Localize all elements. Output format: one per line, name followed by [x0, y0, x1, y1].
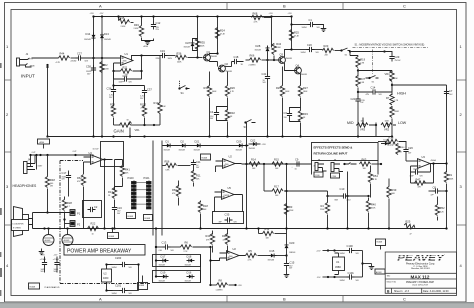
K0608 box e	[201, 154, 211, 160]
diode D19	[159, 271, 169, 283]
node mid gnd	[357, 135, 359, 137]
svg-text:S1: S1	[181, 91, 185, 95]
node r3 rail	[285, 227, 287, 229]
gnd rail j3	[112, 135, 114, 137]
svg-text:R4: R4	[321, 204, 325, 208]
resistor R39	[387, 179, 397, 230]
resistor R47 feedback	[411, 162, 435, 188]
resistor R7	[386, 85, 399, 109]
zone tick right c	[457, 79, 467, 81]
svg-text:R19: R19	[360, 58, 365, 62]
svg-text:1N4148: 1N4148	[236, 149, 242, 151]
svg-text:100K: 100K	[449, 178, 454, 180]
svg-text:R113: R113	[140, 102, 147, 106]
svg-text:S1 : MODERN/VINTAGE VOICING SW: S1 : MODERN/VINTAGE VOICING SWITCH (SHOW…	[355, 43, 425, 46]
svg-text:R63: R63	[362, 158, 367, 162]
svg-text:R28: R28	[67, 201, 72, 205]
gnd rail j5	[143, 135, 145, 137]
node c201	[105, 289, 107, 291]
wire u4 r41 r17	[115, 160, 123, 191]
svg-text:2N5088: 2N5088	[301, 74, 307, 76]
title block bottom row divider a	[391, 288, 393, 293]
node mid	[375, 124, 377, 126]
resistor R38	[110, 94, 116, 126]
svg-text:R24: R24	[220, 29, 225, 33]
resistor R30	[204, 72, 218, 137]
zone tick left	[5, 151, 12, 153]
svg-text:3: 3	[314, 166, 315, 168]
capacitor C40 feedback	[410, 164, 431, 178]
svg-text:VR3: VR3	[360, 127, 366, 131]
svg-text:10: 10	[92, 233, 94, 235]
svg-text:1N4148: 1N4148	[255, 50, 261, 52]
svg-text:D21: D21	[195, 139, 200, 143]
rail dot s1	[43, 227, 45, 229]
svg-text:Date: 3-10-2000, 11:00: Date: 3-10-2000, 11:00	[423, 290, 449, 293]
svg-text:2.49K: 2.49K	[134, 28, 140, 30]
capacitor C27	[71, 51, 89, 62]
capacitor C300	[40, 257, 48, 274]
resistor R36	[176, 51, 187, 63]
A200 box label	[38, 139, 50, 149]
wire u4 out down	[104, 160, 106, 229]
node ef1	[245, 163, 247, 165]
svg-text:K0608: K0608	[145, 218, 150, 220]
svg-text:D13: D13	[104, 32, 109, 36]
wire fb down	[114, 71, 145, 89]
svg-text:470: 470	[111, 108, 114, 110]
svg-text:C18: C18	[234, 55, 239, 59]
node x246b	[245, 227, 247, 229]
svg-text:R11: R11	[196, 174, 201, 178]
node U1 out	[140, 54, 142, 56]
resistor R22	[84, 221, 113, 235]
wire mid node	[375, 123, 377, 137]
svg-text:2W: 2W	[50, 186, 53, 188]
vertical net x197	[197, 17, 199, 58]
resistor R4	[320, 191, 330, 230]
capacitor C14	[358, 85, 392, 96]
svg-text:R49: R49	[134, 23, 139, 27]
svg-text:K0608: K0608	[128, 216, 133, 218]
K0608 box a	[127, 213, 136, 219]
svg-text:R45: R45	[120, 16, 125, 20]
capacitor C101	[335, 271, 363, 282]
resistor R26	[225, 72, 235, 111]
op-amp U3	[418, 155, 437, 168]
resistor R60	[172, 181, 181, 206]
svg-text:R1: R1	[449, 173, 453, 177]
resistor R18 top	[378, 135, 406, 147]
svg-text:C9: C9	[295, 158, 299, 162]
diode D22	[249, 138, 267, 150]
svg-text:220NJ: 220NJ	[71, 60, 77, 62]
+15 tags c300	[41, 255, 59, 257]
svg-text:R27: R27	[303, 86, 308, 90]
jack J2	[331, 158, 343, 172]
svg-text:1N4148: 1N4148	[184, 47, 190, 49]
capacitor C4	[210, 107, 228, 121]
svg-text:7N 50V: 7N 50V	[395, 60, 402, 62]
svg-text:R26: R26	[230, 86, 235, 90]
resistor R29	[276, 67, 290, 137]
capacitor C200	[112, 256, 139, 269]
wire high out	[392, 85, 447, 164]
breakaway dash boundary vertical	[59, 161, 61, 284]
zone tick right b	[457, 224, 467, 226]
wire headphone feed	[31, 154, 94, 156]
capacitor C41	[262, 60, 271, 137]
svg-text:180K: 180K	[303, 91, 308, 93]
svg-text:1N4148: 1N4148	[249, 148, 255, 150]
node hp2	[46, 154, 48, 156]
svg-text:+C300: +C300	[40, 259, 47, 261]
resistor R35	[195, 39, 205, 50]
resistor R40	[366, 198, 376, 230]
svg-text:6N8: 6N8	[335, 199, 338, 201]
vertical net x93	[93, 17, 95, 63]
svg-text:1N4148: 1N4148	[159, 264, 165, 266]
U1 supply pins	[335, 253, 339, 275]
svg-text:C240: C240	[332, 176, 337, 178]
title block divider 2	[385, 278, 456, 280]
speaker label box	[12, 220, 29, 231]
zone tick bottom 1	[226, 296, 228, 303]
svg-text:R18: R18	[203, 204, 208, 208]
wire r19 to vr4	[358, 69, 392, 76]
node q3c	[290, 48, 292, 50]
rail dot s4	[111, 227, 113, 229]
diode D15	[268, 249, 287, 261]
resistor R56	[163, 159, 191, 171]
resistor R11	[191, 171, 201, 187]
node x246	[245, 144, 247, 146]
svg-text:8 OHMS: 8 OHMS	[13, 227, 21, 229]
capacitor C8	[429, 185, 448, 196]
node VR1	[143, 124, 145, 126]
transistor Q2	[218, 62, 232, 73]
svg-text:C39: C39	[123, 74, 128, 78]
svg-text:1N4148: 1N4148	[194, 149, 200, 151]
svg-text:100NJ: 100NJ	[340, 280, 345, 282]
svg-text:R21: R21	[123, 66, 128, 70]
svg-text:C8: C8	[433, 185, 437, 189]
svg-text:U2: U2	[229, 154, 233, 158]
svg-text:R62: R62	[77, 176, 82, 180]
svg-text:1N4148: 1N4148	[185, 264, 191, 266]
svg-text:R14: R14	[251, 158, 256, 162]
vertical J2 column	[346, 172, 348, 230]
node ef3	[285, 163, 287, 165]
svg-text:Q2: Q2	[225, 62, 229, 66]
capacitor C17	[62, 171, 72, 197]
node u4 out	[103, 158, 105, 160]
svg-text:C: C	[403, 296, 406, 301]
capacitor C7	[444, 89, 453, 97]
jack J3	[314, 158, 327, 171]
svg-text:Used: 22R1-7019: Used: 22R1-7019	[412, 285, 429, 287]
svg-text:+: +	[292, 167, 293, 169]
svg-text:C16: C16	[117, 206, 122, 210]
resistor R13	[154, 56, 167, 126]
resistor R15	[272, 158, 283, 170]
svg-text:C201: C201	[115, 284, 122, 288]
POWER AMP BREAKAWAY box	[64, 245, 145, 256]
K0608 box g	[108, 229, 119, 239]
svg-text:1N4148: 1N4148	[289, 252, 295, 254]
svg-text:C10: C10	[340, 187, 345, 191]
svg-text:C11: C11	[196, 160, 201, 164]
node fb right	[140, 70, 142, 72]
breakaway dash boundary bottom	[60, 283, 150, 285]
svg-text:Q3: Q3	[280, 53, 284, 57]
svg-text:D18: D18	[187, 255, 192, 259]
svg-text:240K: 240K	[177, 61, 182, 63]
svg-text:100K: 100K	[285, 91, 290, 93]
input jack J1	[17, 52, 36, 67]
svg-text:100NJ: 100NJ	[112, 267, 117, 269]
svg-text:HEADPHONES: HEADPHONES	[13, 184, 37, 188]
svg-text:R3: R3	[289, 205, 293, 209]
wire u3 out	[411, 164, 447, 173]
wire VR1 to R13	[145, 124, 161, 126]
svg-text:LOW: LOW	[398, 121, 407, 125]
headphone jack J4	[24, 154, 44, 174]
svg-text:A2003: A2003	[376, 271, 381, 274]
switch S1d	[366, 76, 379, 84]
svg-text:4560: 4560	[229, 256, 233, 258]
diode box pair top	[153, 255, 201, 267]
ground small left	[39, 249, 45, 255]
vertical x210	[210, 247, 212, 285]
resistor R1	[444, 162, 454, 229]
svg-text:C41: C41	[262, 72, 267, 76]
svg-text:C38: C38	[86, 65, 91, 69]
node u1d	[333, 276, 335, 278]
transistor Q1	[203, 50, 217, 61]
resistor R19	[356, 57, 366, 68]
svg-text:C29: C29	[395, 55, 400, 59]
wire C27 to U1	[84, 57, 114, 59]
svg-text:1M0B: 1M0B	[30, 66, 36, 68]
resistor R17b	[264, 185, 328, 197]
svg-text:220K: 220K	[371, 208, 376, 210]
svg-text:C3: C3	[284, 111, 288, 115]
svg-text:240K: 240K	[276, 47, 281, 49]
svg-text:C2: C2	[94, 205, 98, 209]
svg-text:R44: R44	[60, 51, 65, 55]
svg-text:D19: D19	[161, 271, 166, 275]
svg-text:R15: R15	[274, 158, 279, 162]
resistor R25	[289, 30, 299, 41]
svg-text:PLACE NEAR U5: PLACE NEAR U5	[45, 286, 60, 289]
svg-text:R7: R7	[386, 96, 390, 100]
svg-text:C240: C240	[315, 175, 320, 177]
node bypass	[361, 262, 363, 264]
capacitor C37	[140, 88, 152, 100]
svg-text:C1: C1	[309, 18, 313, 22]
svg-text:Q4: Q4	[296, 64, 300, 68]
resistor R33	[298, 111, 308, 137]
node u1c	[327, 276, 329, 278]
capacitor C3	[284, 108, 301, 122]
resistor R25 bottom	[402, 219, 421, 235]
svg-text:B: B	[283, 296, 286, 301]
capacitor C26	[397, 146, 418, 161]
rail junction x197	[196, 15, 198, 17]
node x210b	[209, 284, 211, 286]
resistor R6	[181, 240, 211, 253]
svg-text:U4: U4	[89, 151, 93, 155]
svg-text:K0608: K0608	[377, 242, 382, 244]
diode D28	[255, 44, 270, 54]
node R30 gnd	[208, 135, 210, 137]
resistor R14	[249, 158, 260, 170]
diode box pair bottom	[153, 271, 201, 283]
rail junction x271	[270, 15, 272, 17]
wire U4 in	[84, 157, 113, 174]
effects return wire	[242, 163, 312, 165]
switch S1a	[178, 81, 189, 95]
svg-text:100NJ: 100NJ	[340, 253, 345, 255]
wire u2b in	[211, 253, 246, 261]
svg-text:C14: C14	[371, 86, 376, 90]
vertical net x291	[291, 17, 293, 50]
resistor R66 2.2meg	[246, 53, 268, 66]
svg-text:560K: 560K	[212, 91, 217, 93]
capacitor C201	[112, 284, 139, 296]
resistor R18 vertical	[198, 201, 208, 230]
rail junction x291	[290, 15, 292, 17]
ground below R49 C12	[142, 38, 154, 49]
node base Q1	[196, 56, 198, 58]
svg-text:P101: P101	[144, 176, 151, 180]
C240 box a	[314, 172, 323, 177]
resistor R3	[284, 204, 294, 215]
gnd rail j2	[101, 135, 103, 137]
node c14	[357, 91, 359, 93]
svg-text:P2: P2	[77, 222, 81, 226]
svg-text:R48: R48	[50, 178, 55, 182]
svg-text:4060S: 4060S	[45, 240, 51, 242]
node fb2	[112, 84, 114, 86]
svg-text:1N914B: 1N914B	[268, 259, 275, 261]
svg-text:R23: R23	[324, 44, 329, 48]
svg-text:LOUDSPKR: LOUDSPKR	[13, 223, 25, 225]
svg-text:R49: R49	[206, 234, 211, 238]
vertical net x101	[101, 17, 103, 137]
svg-text:220K: 220K	[289, 210, 294, 212]
node c200	[105, 263, 107, 265]
rail junction x217	[216, 15, 218, 17]
diode D23	[381, 140, 397, 146]
op-amp U4	[89, 148, 104, 164]
resistor R27	[298, 74, 308, 111]
svg-text:D16: D16	[187, 271, 192, 275]
IC U1 4580 box	[333, 257, 345, 271]
resistor R54	[368, 166, 378, 198]
svg-text:Meridian, MS 39301: Meridian, MS 39301	[411, 267, 430, 270]
S1 dash link drop	[372, 50, 374, 75]
connector P100 pins	[132, 181, 137, 209]
svg-text:100NJ: 100NJ	[302, 27, 307, 29]
resistor R50	[396, 144, 405, 155]
svg-text:U2: U2	[233, 247, 237, 251]
wire u2 io	[216, 161, 242, 172]
wire C19 to R36	[168, 55, 176, 57]
C240 box b	[331, 173, 340, 178]
svg-text:R40: R40	[371, 203, 376, 207]
capacitor C100	[335, 244, 363, 255]
zone tick left c	[5, 79, 12, 81]
node hp3	[74, 154, 76, 156]
svg-text:4060S: 4060S	[64, 240, 70, 242]
IC U2 timer box	[102, 269, 112, 282]
node r63	[380, 163, 382, 165]
svg-text:R54: R54	[373, 174, 378, 178]
capacitor C19	[156, 49, 173, 60]
wire U1 output	[132, 56, 161, 61]
node c41 gnd	[266, 135, 268, 137]
connector P101 pins	[147, 181, 152, 209]
svg-text:D14: D14	[86, 32, 91, 36]
supply rail B	[161, 141, 163, 236]
svg-text:VR2: VR2	[384, 127, 390, 131]
node r19	[357, 69, 359, 71]
node r33 gnd	[299, 135, 301, 137]
svg-text:1N4148: 1N4148	[179, 149, 185, 151]
diode D20	[236, 139, 245, 151]
loudspeaker	[14, 207, 33, 237]
resistor R24	[215, 28, 225, 39]
node u1b	[333, 249, 335, 251]
svg-text:47: 47	[410, 233, 412, 235]
svg-text:LM358: LM358	[224, 195, 230, 197]
svg-text:R17: R17	[108, 190, 113, 194]
svg-text:220K: 220K	[320, 209, 325, 211]
svg-text:240K: 240K	[200, 46, 205, 48]
pot VR3 mid	[356, 118, 376, 132]
svg-text:4580: 4580	[335, 265, 341, 269]
diode D18	[185, 255, 195, 267]
pot VR4 high	[385, 71, 399, 87]
resistor R8	[211, 279, 243, 292]
node c13	[155, 246, 157, 248]
svg-text:PREAMP / POWER AMP: PREAMP / POWER AMP	[406, 281, 434, 284]
svg-text:P1: P1	[77, 211, 81, 215]
svg-text:R38: R38	[110, 102, 115, 106]
svg-text:100NJ: 100NJ	[301, 52, 306, 54]
node VR1b	[153, 124, 155, 126]
node c16	[113, 227, 115, 229]
diode D13	[100, 32, 111, 41]
svg-text:D2: D2	[181, 139, 185, 143]
wire U1 inputs	[114, 58, 121, 71]
svg-text:U5: U5	[228, 186, 232, 190]
resistor R2	[100, 62, 110, 73]
svg-text:A200: A200	[144, 45, 148, 48]
capacitor C29	[350, 50, 401, 62]
resistor R37	[356, 76, 366, 87]
svg-text:POWER AMP BREAKAWAY: POWER AMP BREAKAWAY	[67, 249, 132, 255]
node d15 c15	[285, 254, 287, 256]
svg-text:22NJ: 22NJ	[156, 58, 160, 60]
gnd rail j1	[92, 135, 94, 137]
svg-text:HIGH: HIGH	[397, 91, 406, 95]
bypass vertical	[362, 251, 364, 278]
op-amp U5	[222, 186, 235, 199]
svg-text:R66: R66	[250, 53, 255, 57]
